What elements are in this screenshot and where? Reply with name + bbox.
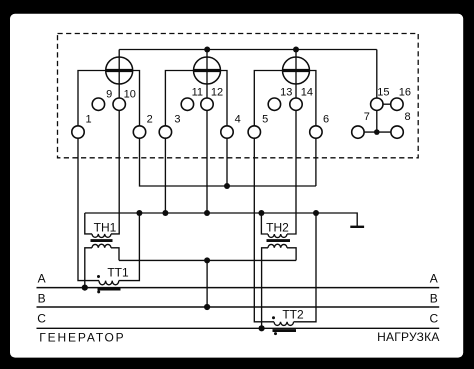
svg-text:1: 1 (85, 114, 91, 126)
wire: VT secondary bus to phase B (119, 259, 296, 261)
terminal 13 (268, 87, 292, 111)
junction: TT2 return on bus (313, 210, 319, 216)
terminal 4 (221, 114, 241, 139)
svg-text:6: 6 (323, 114, 329, 126)
ground (350, 226, 364, 228)
junction: 15 drop on 7-8 link (374, 129, 380, 135)
terminal 8 (391, 111, 411, 138)
svg-text:3: 3 (174, 114, 180, 126)
wire: element 1 coil span (78, 71, 140, 126)
wire: element 2 coil span (165, 71, 227, 126)
junction: t4 on tie bus (224, 183, 230, 189)
measuring element 2 (circle) (194, 50, 221, 99)
junction: TT1 return on bus (136, 210, 142, 216)
svg-text:12: 12 (211, 87, 223, 99)
svg-text:14: 14 (301, 87, 313, 99)
label: load side (377, 330, 439, 344)
junction: bus - element 3 (293, 47, 299, 53)
wire: bus drop to TT2 secondary (294, 213, 316, 322)
wire: terminal 5 to TT2 secondary (254, 138, 274, 322)
terminal 5 (248, 114, 268, 139)
wire: top voltage bus (119, 49, 377, 51)
terminal 6 (310, 114, 329, 139)
transformer TH1 (85, 110, 119, 287)
svg-text:ТТ2: ТТ2 (282, 307, 304, 321)
current transformer TT1 (97, 265, 129, 293)
svg-text:ТН2: ТН2 (266, 221, 289, 235)
wire: bus drop to TT1 secondary (119, 213, 140, 281)
svg-text:7: 7 (364, 111, 370, 123)
svg-text:НАГРУЗКА: НАГРУЗКА (377, 330, 439, 344)
svg-text:ГЕНЕРАТОР: ГЕНЕРАТОР (39, 330, 123, 344)
wire: terminal 2 to voltage tie bus (140, 138, 316, 186)
terminal 2 (133, 114, 152, 139)
label: generator side (39, 330, 123, 344)
wire: drop to phase B (206, 260, 208, 307)
svg-text:2: 2 (147, 114, 153, 126)
measuring element 1 (circle) (106, 50, 133, 99)
wire: terminal 15 to link of 7-8 (376, 110, 378, 132)
junction: on phase B (204, 304, 210, 310)
terminal 9 (92, 88, 112, 110)
svg-text:А: А (38, 271, 46, 285)
terminal 1 (72, 114, 92, 139)
transformer TH2 (261, 110, 296, 328)
svg-text:С: С (429, 312, 438, 326)
svg-text:15: 15 (377, 87, 389, 99)
wire: grounded secondary bus (85, 213, 357, 227)
meter case boundary (dashed) (58, 34, 419, 158)
terminal 12 (201, 87, 223, 111)
svg-text:С: С (37, 312, 46, 326)
svg-text:9: 9 (106, 88, 112, 100)
terminal 14 (290, 87, 313, 111)
terminal 3 (159, 114, 180, 139)
svg-text:А: А (430, 271, 438, 285)
terminal 11 (181, 87, 203, 111)
svg-text:В: В (38, 292, 46, 306)
junction: t12 on bus (204, 210, 210, 216)
svg-text:16: 16 (399, 87, 411, 99)
svg-text:4: 4 (235, 114, 241, 126)
wire: bus drop to terminal 15 (376, 50, 378, 99)
svg-text:В: В (430, 292, 438, 306)
terminal 16 (391, 87, 411, 111)
measuring element 3 (circle) (283, 50, 310, 99)
phase line A (37, 271, 440, 287)
svg-text:ТН1: ТН1 (94, 221, 117, 235)
phase line B (37, 292, 440, 307)
wire: terminal 6 drop (315, 138, 317, 186)
junction: t3 on bus (162, 210, 168, 216)
terminal 10 (113, 88, 136, 110)
wire: element 3 coil span (254, 71, 316, 126)
svg-text:13: 13 (280, 87, 292, 99)
svg-text:10: 10 (124, 88, 136, 100)
junction: TH2 secondary on phase C (259, 325, 265, 331)
wire: terminal 12 drop to bus (206, 110, 208, 213)
junction: TH1 secondary on phase A (82, 285, 88, 291)
wire: link terminals 7-8 (364, 131, 391, 133)
phase line C (37, 312, 440, 329)
svg-text:ТТ1: ТТ1 (107, 265, 129, 279)
svg-text:5: 5 (262, 114, 268, 126)
junction: TH2 on bus (258, 210, 264, 216)
terminal 15 (371, 87, 390, 111)
terminal 7 (352, 111, 370, 138)
junction: B drop on VT bus (204, 257, 210, 263)
svg-text:11: 11 (192, 87, 203, 99)
current transformer TT2 (272, 307, 304, 335)
wire: terminal 4 drop (226, 138, 228, 186)
junction: bus - element 2 (204, 47, 210, 53)
wire: terminal 3 drop to bus (164, 138, 166, 213)
svg-text:8: 8 (404, 111, 410, 123)
wire: terminal 1 to TT1 secondary (78, 138, 99, 280)
wire: link terminals 15-16 (383, 103, 391, 105)
